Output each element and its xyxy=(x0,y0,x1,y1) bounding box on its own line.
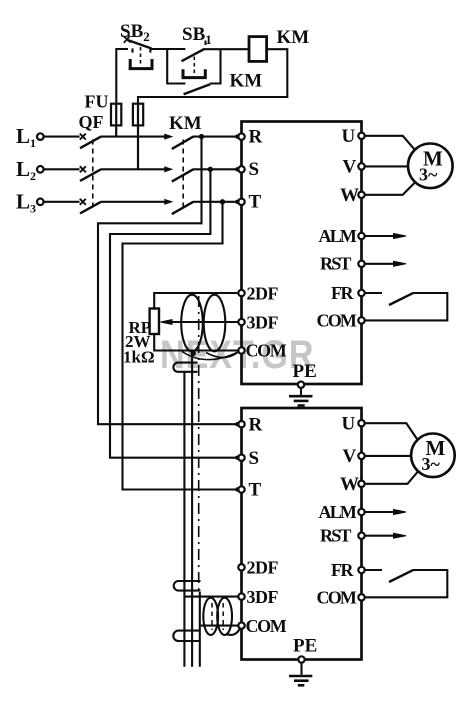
wire L2 to QF xyxy=(44,168,80,170)
terminal U2-S xyxy=(238,455,244,461)
cable shield ellipse B1 xyxy=(203,598,218,635)
svg-text:U: U xyxy=(342,414,356,435)
svg-text:FR: FR xyxy=(331,283,354,303)
wire pot top to U1-2DF xyxy=(154,293,238,309)
wire U1-W to motor M1 xyxy=(365,183,415,195)
terminal U2-FR xyxy=(358,567,364,573)
contact KM pole3 blade xyxy=(172,202,194,214)
svg-text:3~: 3~ xyxy=(419,165,438,185)
wire L1 to QF xyxy=(44,136,80,138)
node L2 terminal circle xyxy=(37,166,44,173)
svg-text:T: T xyxy=(249,192,262,213)
wire SB2 to SB1 xyxy=(152,48,186,50)
wire KM2 to inverter1 S xyxy=(193,168,238,170)
svg-text:S: S xyxy=(249,159,260,180)
pushbutton SB1 (NO) blade xyxy=(182,49,205,61)
node R1 wire end dot xyxy=(235,134,239,138)
svg-text:FU: FU xyxy=(85,92,109,112)
svg-text:W: W xyxy=(340,185,359,206)
terminal U1-2DF xyxy=(238,290,244,296)
arrow U1-ALM output xyxy=(365,235,396,237)
svg-text:COM: COM xyxy=(317,588,357,608)
pushbutton SB2 actuator cup xyxy=(129,59,154,69)
wire U1-V to motor M1 xyxy=(365,165,409,167)
terminal U2-COM-right xyxy=(358,594,364,600)
svg-text:PE: PE xyxy=(293,636,317,657)
terminal U2-RST xyxy=(358,533,364,539)
wire parallel box right vertical xyxy=(210,49,221,83)
breaker QF pole2 cross xyxy=(80,166,86,172)
contact KM linkage dashed xyxy=(182,140,184,211)
terminal U1-PE xyxy=(298,382,304,388)
wire L3 to QF xyxy=(44,201,80,203)
wire U2-W to motor M2 xyxy=(365,472,418,484)
cable shield ellipse A2 xyxy=(204,295,226,352)
switch FR2 blade xyxy=(389,570,413,582)
svg-text:3DF: 3DF xyxy=(247,587,279,607)
potentiometer RP body xyxy=(150,309,159,335)
svg-text:ALM: ALM xyxy=(319,226,357,246)
cable pigtail loop bottom1 xyxy=(174,581,201,591)
svg-text:QF: QF xyxy=(79,112,104,132)
pushbutton SB2 (NC) blade xyxy=(128,40,152,49)
wire KM3 to inverter1 T xyxy=(193,201,238,203)
inverter U1 box xyxy=(242,122,362,385)
svg-text:R: R xyxy=(249,127,263,148)
svg-text:W: W xyxy=(340,474,359,495)
terminal U1-S xyxy=(238,166,244,172)
svg-text:T: T xyxy=(249,480,262,501)
wire cable core C lower xyxy=(199,592,201,667)
wire KM1 to inverter1 R xyxy=(193,136,238,138)
arrow U2-ALM output xyxy=(365,511,396,513)
breaker QF pole3 blade xyxy=(80,202,101,214)
pushbutton SB1 actuator cup xyxy=(182,69,207,77)
inverter U2 box xyxy=(242,408,362,660)
arrow U2-RST output xyxy=(365,535,396,537)
terminal U2-PE xyxy=(298,656,304,662)
node L3 terminal circle xyxy=(37,199,44,206)
pushbutton SB1 actuator dashed link xyxy=(193,57,195,76)
switch FR1 blade xyxy=(389,293,413,305)
cable axis dashes B xyxy=(212,603,223,630)
node S1 wire end dot xyxy=(235,167,239,171)
pushbutton SB2 terminal stubs xyxy=(133,48,151,52)
terminal U1-3DF xyxy=(238,319,244,325)
wire QF2 to KM2 xyxy=(101,168,167,170)
svg-text:2DF: 2DF xyxy=(247,558,279,578)
node shield-COM junction xyxy=(191,351,196,356)
svg-text:KM: KM xyxy=(230,71,263,92)
svg-text:R: R xyxy=(249,415,263,436)
watermark NEXT.GR xyxy=(160,331,314,376)
svg-text:3~: 3~ xyxy=(422,454,441,474)
cable shield ellipse A1 xyxy=(181,295,203,352)
wire U2-V to motor M2 xyxy=(365,455,412,457)
terminal U2-R xyxy=(238,421,244,427)
terminal U1-R xyxy=(238,133,244,139)
svg-text:COM: COM xyxy=(246,341,287,361)
terminal U1-ALM xyxy=(358,233,364,239)
breaker QF pole1 blade xyxy=(80,137,101,149)
breaker QF pole3 cross xyxy=(80,199,86,205)
wire U1-FR stub xyxy=(365,292,382,294)
svg-text:KM: KM xyxy=(277,27,310,48)
potentiometer RP wiper wire to U1-3DF xyxy=(170,321,238,323)
wire KM coil return xyxy=(138,49,287,103)
wire cable to U2-3DF xyxy=(184,596,239,598)
node L1 terminal circle xyxy=(37,133,44,140)
pushbutton SB1 blade tip tick xyxy=(205,41,207,46)
wire PE1 ground stem xyxy=(300,388,302,395)
terminal U2-V xyxy=(358,453,364,459)
cable pigtail loop bottom2 xyxy=(173,631,200,641)
terminal U1-U xyxy=(358,133,364,139)
svg-text:FR: FR xyxy=(331,560,354,580)
contact KM pole3 fixed dot xyxy=(165,200,171,204)
cable shield swoosh bottom xyxy=(226,628,240,635)
svg-text:V: V xyxy=(343,157,357,178)
cable shield swoosh 1 xyxy=(182,352,238,360)
terminal U1-COM-left xyxy=(238,347,244,353)
pushbutton SB2 actuator dashed link xyxy=(140,47,142,66)
wire S tap to inverter2 S xyxy=(110,169,238,457)
coil KM rectangle xyxy=(249,37,267,62)
node S2 wire end dot xyxy=(235,456,239,460)
cable axis dash-dot xyxy=(198,296,200,592)
svg-text:3DF: 3DF xyxy=(247,313,279,333)
node T1 tap junction xyxy=(220,199,225,204)
terminal U2-2DF xyxy=(238,564,244,570)
node S1 tap junction xyxy=(208,167,213,172)
wire pot bottom to U1-COM xyxy=(154,334,238,351)
svg-text:RST: RST xyxy=(320,526,351,546)
contact KM pole1 fixed dot xyxy=(165,135,171,139)
wire PE2 ground stem xyxy=(300,663,302,675)
contact KM pole1 blade xyxy=(172,137,194,149)
arrow U1-RST output xyxy=(365,263,396,265)
fuse FU2 xyxy=(133,104,143,170)
terminal U1-COM-right xyxy=(358,317,364,323)
wire SB2 left drop to FU1 xyxy=(116,49,128,104)
wire QF3 to KM3 xyxy=(101,201,167,203)
terminal U1-FR xyxy=(358,290,364,296)
node R1 tap junction xyxy=(199,134,204,139)
wire node parallel box left vertical xyxy=(167,49,185,84)
wire U2-U to motor M2 xyxy=(365,423,418,440)
breaker QF pole2 blade xyxy=(80,169,101,181)
cable pigtail loop top xyxy=(173,363,197,372)
potentiometer RP wiper arrow xyxy=(161,320,173,325)
motor M1 circle xyxy=(408,144,453,189)
svg-text:U: U xyxy=(342,126,356,147)
wire T tap to inverter2 T xyxy=(123,202,239,490)
contact KM pole2 fixed dot xyxy=(165,167,171,171)
svg-text:PE: PE xyxy=(293,361,317,382)
terminal U2-U xyxy=(358,420,364,426)
svg-text:COM: COM xyxy=(246,616,287,636)
terminal U2-COM-left xyxy=(238,622,244,628)
wire FR2 switch loop to COM xyxy=(365,570,448,597)
node T2 wire end dot xyxy=(235,487,239,491)
fuse FU1 xyxy=(111,104,121,137)
svg-text:2DF: 2DF xyxy=(247,284,279,304)
wire QF1 to KM1 xyxy=(101,136,167,138)
wire cable to U2-COM xyxy=(201,625,239,627)
svg-text:V: V xyxy=(343,446,357,467)
terminal U1-V xyxy=(358,163,364,169)
terminal U2-W xyxy=(358,481,364,487)
wire U2-FR stub xyxy=(365,569,382,571)
contact KM pole2 blade xyxy=(172,169,194,181)
wire cable core B down xyxy=(191,355,193,667)
ground PE2 symbol xyxy=(289,675,312,678)
terminal U2-T xyxy=(238,486,244,492)
terminal U1-RST xyxy=(358,261,364,267)
cable shield ellipse B2 xyxy=(217,598,232,635)
wire FR1 switch loop to COM xyxy=(365,293,448,320)
svg-text:1kΩ: 1kΩ xyxy=(123,348,155,367)
terminal U1-T xyxy=(238,199,244,205)
breaker QF linkage dashed xyxy=(92,140,94,211)
svg-text:COM: COM xyxy=(317,311,357,331)
terminal U2-3DF xyxy=(238,593,244,599)
svg-text:ALM: ALM xyxy=(319,502,357,522)
wire SB1 to KM coil xyxy=(204,48,249,50)
wire U1-U to motor M1 xyxy=(365,136,415,150)
terminal U2-ALM xyxy=(358,509,364,515)
ground PE1 symbol xyxy=(289,395,313,398)
svg-text:KM: KM xyxy=(169,113,202,134)
breaker QF pole1 cross xyxy=(80,134,86,140)
svg-text:S: S xyxy=(249,448,260,469)
terminal U1-W xyxy=(358,192,364,198)
svg-text:RST: RST xyxy=(320,254,351,274)
pushbutton SB2 release cross xyxy=(124,36,131,43)
contact KM auxiliary blade xyxy=(184,84,211,94)
node T1 wire end dot xyxy=(235,200,239,204)
motor M2 circle xyxy=(411,434,455,478)
wire cable core A down xyxy=(183,372,185,667)
wire R tap to inverter2 R xyxy=(98,137,238,425)
node R2 wire end dot xyxy=(235,422,239,426)
cable shield swoosh 2 xyxy=(206,352,239,358)
